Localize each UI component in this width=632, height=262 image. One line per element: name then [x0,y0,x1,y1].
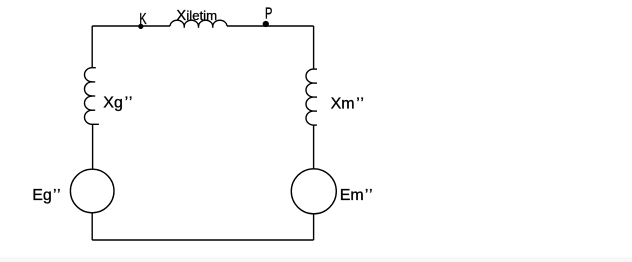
left coil bottom tick [92,123,99,125]
left coil cusp tick 3 [91,109,95,111]
source Eg'' circle [70,169,114,213]
svg-text:Xg’’: Xg’’ [103,95,133,112]
top coil cusp tick 2 [198,25,200,28]
wire right vertical upper [313,26,315,69]
right coil bottom tick [314,124,317,126]
svg-text:P: P [265,5,272,22]
inductor Xiletim (top, 4 bumps) [170,20,227,26]
top coil cusp tick 3 [212,25,214,28]
left coil top tick [92,67,96,69]
svg-text:Xm’’: Xm’’ [331,95,365,112]
svg-text:Xiletim: Xiletim [176,8,217,24]
wire bottom horizontal [92,239,313,241]
bottom page band [0,257,632,262]
svg-text:Em’’: Em’’ [340,187,374,204]
right coil top tick [314,68,318,70]
svg-text:Eg’’: Eg’’ [32,187,61,204]
left coil cusp tick 1 [91,81,95,83]
node P dot [263,21,269,27]
left coil cusp tick 2 [91,95,95,97]
wire top-left horizontal (corner to node K to coil) [92,25,170,27]
inductor Xm'' (right, 4 bumps) [306,69,313,125]
top coil cusp tick 1 [183,25,185,28]
wire right vertical below source [313,214,315,240]
right coil cusp tick 2 [314,96,318,98]
wire left vertical upper [91,26,93,68]
node K dot [138,24,143,29]
right coil cusp tick 3 [314,110,318,112]
inductor Xg'' (left, 4 bumps) [85,68,93,125]
wire left vertical to source [92,124,94,169]
wire right vertical source to coil [313,125,315,169]
right coil cusp tick 1 [314,82,318,84]
svg-text:K: K [139,11,147,28]
wire left vertical below source [91,213,93,240]
wire top-right horizontal (coil to node P to corner) [227,25,314,27]
source Em'' circle [291,169,336,214]
